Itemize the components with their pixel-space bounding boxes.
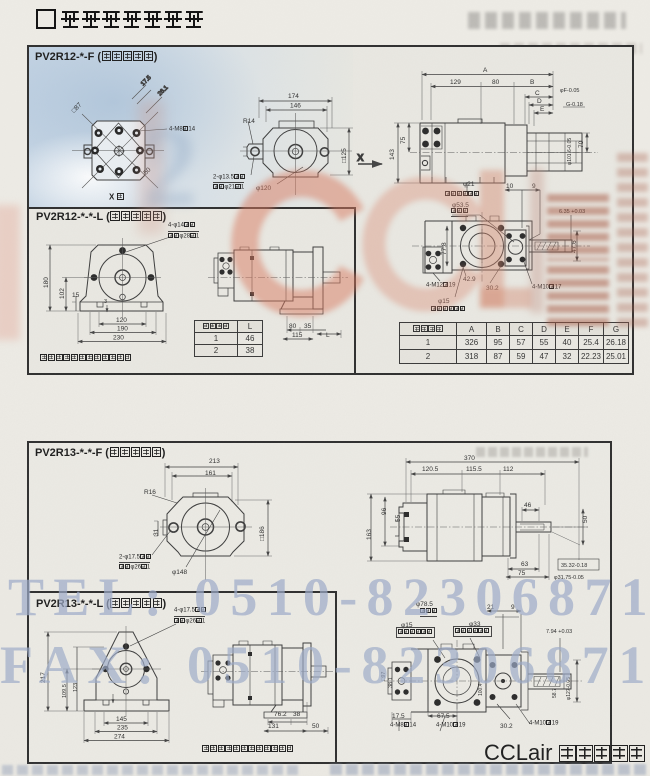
suction leaders (467, 182, 514, 242)
leader phi120 (277, 167, 303, 184)
dim 17.5 diagonal (132, 85, 162, 113)
label 4-M12 depth 19 (426, 282, 455, 289)
label X direction (109, 193, 124, 201)
dim 161 (172, 475, 232, 477)
flange octagon outline (263, 128, 328, 177)
top port stub (495, 614, 521, 652)
dim 143 (397, 123, 399, 183)
dim 102 (65, 278, 67, 312)
centerline (208, 277, 348, 279)
label 4-phi17.5 thru holes fraction (174, 607, 206, 614)
front flange bolts (422, 128, 440, 148)
dim 70 right (586, 133, 588, 152)
feet tabs (432, 177, 494, 183)
dim 123 (76, 647, 78, 711)
center hole (289, 145, 303, 159)
label 4-M10 depth 17 (532, 284, 561, 291)
leader to top bolt (126, 237, 170, 252)
right flange (486, 655, 521, 707)
shaft (311, 666, 326, 677)
centerlines (384, 680, 584, 682)
dim A (422, 74, 553, 76)
plate (303, 643, 311, 706)
note: other dims see flange type (box2) (202, 745, 294, 753)
divider line horizontal box2 (27, 591, 336, 593)
left flange 4-bolt (392, 662, 411, 700)
dims 76.2 38 (268, 721, 307, 723)
bolts (91, 247, 155, 281)
bleed-through text top-right (468, 12, 626, 29)
shaft (529, 240, 572, 252)
label 4-M8 depth 14 (169, 126, 195, 133)
dim 129 80 B (431, 86, 553, 88)
mounting plate (313, 247, 323, 309)
center hole (115, 147, 124, 156)
label 2-phi17.5 thru holes (119, 554, 151, 561)
left flange bracket (399, 503, 427, 551)
label 4-phi14 thru holes fraction (168, 222, 195, 229)
shaft-form big table (PV2R12 dims A-G) (399, 322, 629, 364)
main body (233, 645, 282, 705)
bottom dims (104, 722, 148, 724)
big circle (182, 503, 230, 551)
inner diamond (94, 123, 143, 178)
right block (282, 648, 303, 700)
foot (271, 700, 303, 712)
bolt holes (91, 126, 144, 176)
dim L (317, 333, 341, 335)
label 4-M8 depth 14 (D11) (390, 722, 416, 729)
dim 186 vertical (267, 500, 269, 556)
centerline (410, 152, 598, 154)
label 2-phi13.5 thru holes (213, 174, 245, 181)
big circle (108, 651, 145, 688)
divider line vertical box1 (354, 207, 356, 374)
shaft (323, 272, 340, 283)
top port stub lines (522, 190, 540, 240)
footer brand: CCLair chinese company name (484, 740, 645, 766)
shaft (528, 674, 571, 689)
centerlines (160, 488, 252, 580)
label 4-M10 depth 19 (D11 right) (529, 720, 558, 727)
foot top line (80, 301, 163, 303)
dim 217 (47, 632, 49, 711)
flange octagon body (92, 121, 145, 180)
leader R16 (152, 495, 177, 503)
plate (510, 494, 516, 558)
main block (427, 494, 482, 561)
dim 50 right (582, 509, 584, 545)
divider line horizontal box1 (27, 207, 355, 209)
left dims (370, 494, 372, 561)
right block (293, 252, 313, 297)
note: other dims see flange type (box1) (40, 354, 132, 362)
top tab (458, 119, 482, 123)
label right-angle outlet (431, 306, 466, 313)
porting block (527, 133, 582, 171)
shaft (516, 522, 551, 532)
left block (425, 221, 452, 273)
bottom leaders (433, 262, 532, 284)
dim 174 (259, 100, 332, 102)
body pentagon (84, 632, 169, 711)
big opening circle (461, 225, 504, 268)
centerline (412, 245, 590, 247)
big circle (99, 254, 146, 301)
bleed-through bottom strip (2, 765, 302, 775)
dim 10 9 (505, 189, 540, 191)
body bolts (460, 225, 504, 267)
small port left low (421, 156, 430, 170)
dim 146 (266, 109, 327, 111)
flange octagon (167, 497, 244, 556)
dim 109.5 (66, 669, 68, 711)
main center block (452, 221, 532, 270)
right ear bolt (320, 148, 328, 156)
bottom dims (392, 703, 457, 722)
left ear port (247, 144, 263, 159)
dim 370 (406, 461, 579, 463)
outer box 2 : PV2R13 (27, 441, 612, 764)
dim 47.6 (576, 231, 578, 261)
left ear (84, 145, 92, 158)
watermark pink strip page left (0, 205, 20, 340)
centerlines (240, 113, 352, 195)
small arrow 2 (112, 694, 114, 703)
dim 15 (75, 296, 77, 311)
title: double pump outline dimensions (36, 9, 204, 33)
watermark TEL phone number (8, 566, 650, 628)
second block (482, 497, 510, 556)
watermark blue digit 2 (142, 104, 198, 233)
divider line vertical box2 (335, 591, 337, 763)
center flange block (428, 649, 486, 712)
dim 46 (522, 509, 539, 511)
left ear (163, 520, 167, 535)
7.94 leader (559, 638, 561, 672)
label 4-M10 depth 19 (D11 center) (436, 722, 465, 729)
watermark FAX phone number (0, 634, 650, 696)
rear cover (505, 125, 527, 176)
dims 131 50 (264, 730, 307, 732)
6.35 leader (570, 215, 572, 240)
body pentagon (80, 245, 163, 311)
right ear (236, 522, 245, 531)
plate (521, 652, 528, 710)
label aux pump inlet (445, 191, 480, 198)
dim 180 (49, 245, 51, 311)
leader (130, 624, 176, 646)
label shaft pump suction boxed (453, 626, 492, 637)
port leaders (433, 638, 480, 658)
centerlines (92, 626, 161, 716)
left flange (213, 655, 233, 700)
dim 21 9 (487, 610, 521, 612)
big circle (274, 130, 317, 173)
leader 13.5 holes (251, 156, 254, 175)
dim E (534, 112, 553, 114)
leader R14 (248, 121, 253, 144)
dim 213 (165, 466, 238, 468)
dim 77.8 (446, 226, 448, 266)
dim 120.5 115.5 112 (411, 473, 545, 475)
bottom dims (99, 323, 146, 325)
bolts (102, 643, 149, 672)
leader 4-M8 (139, 129, 167, 131)
notches (97, 302, 147, 307)
dims 80 35 (287, 329, 326, 331)
lower stub (218, 288, 228, 296)
dim 75 (408, 123, 410, 152)
centerline (390, 526, 590, 528)
label base pump suction boxed (396, 627, 435, 638)
right flange (505, 230, 526, 266)
left block (411, 649, 428, 712)
plate (526, 226, 529, 269)
dim 115 (283, 338, 313, 340)
shaft-form small table (PV2R12-L) (194, 320, 263, 357)
dim box125 vertical (348, 128, 350, 175)
faint bleed line box2 top right (476, 447, 588, 457)
watermark red band behind digit 2 (138, 100, 164, 235)
blue tinted region of PV2R12 flange section (29, 47, 353, 208)
main body (234, 250, 293, 301)
leader phi148 (186, 510, 220, 567)
left flange (218, 253, 234, 288)
dim 3 small (106, 305, 108, 312)
dim C (525, 96, 553, 98)
label suction port D11 (420, 608, 437, 617)
right ear (145, 145, 154, 158)
diagonal centerlines (72, 112, 164, 188)
watermark red letter C ring (0, 0, 650, 400)
label PV2R12-*-F (35, 51, 157, 63)
front body block (420, 123, 505, 183)
leader 17.5 holes (152, 530, 171, 555)
tolerance G line (563, 106, 585, 108)
outer box 1 : PV2R12 (27, 45, 634, 375)
dim 31 (157, 521, 159, 536)
boxed tolerance 35.32 (558, 559, 599, 570)
left lower flange 4-bolt (423, 247, 443, 273)
foot bracket (281, 297, 313, 309)
label suction port (451, 208, 468, 217)
watermark red hanzi blobs right (547, 192, 609, 254)
dim 101.6 right (575, 141, 577, 163)
bottom dims 63 75 (508, 534, 549, 580)
dim D (529, 104, 553, 106)
centerline (201, 671, 333, 673)
dim phi127 right (576, 660, 578, 702)
centerlines (84, 238, 161, 318)
